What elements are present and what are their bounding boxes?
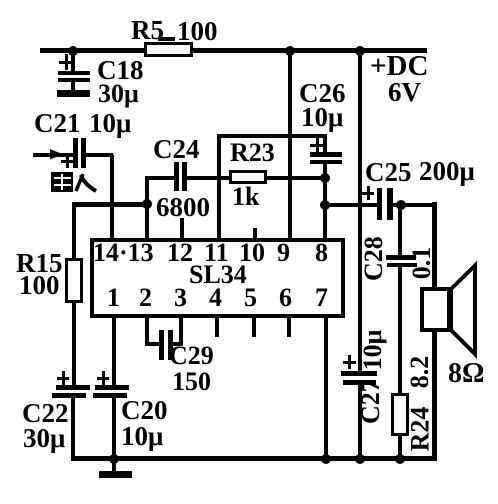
wire pin10 stub bbox=[253, 228, 257, 238]
node pin9 riser junction bbox=[285, 46, 295, 56]
node output junction bbox=[320, 200, 330, 210]
node R24 rail junction bbox=[395, 454, 405, 464]
label 100 (R15 value) bbox=[19, 272, 60, 299]
label C29 bbox=[169, 343, 214, 369]
wire pin3 lead bbox=[179, 318, 183, 346]
label C24 bbox=[153, 136, 200, 163]
label 10u (C27 value, rotated) bbox=[360, 329, 386, 371]
label shu (input chinese char 1) bbox=[51, 172, 73, 192]
wire C22 lower lead bbox=[71, 397, 75, 460]
wire input node horizontal bbox=[72, 202, 149, 207]
wire top rail right segment bbox=[191, 48, 427, 53]
node R23/C26/pin8 junction bbox=[320, 173, 330, 183]
wire pin13 riser bbox=[145, 206, 149, 238]
label pin 1 bbox=[107, 285, 120, 311]
wire R15 riser bbox=[72, 206, 76, 258]
resistor R15 bbox=[65, 258, 83, 303]
label pin 8 bbox=[315, 240, 328, 266]
label 8.2 (R24 value, rotated) bbox=[407, 352, 433, 392]
wire C26 top horizontal (pin11 to C26) bbox=[217, 134, 327, 138]
label 1k (R23 value) bbox=[232, 184, 259, 210]
wire C26 bottom lead bbox=[323, 164, 327, 180]
wire pin6 stub bbox=[287, 318, 291, 337]
label C25 bbox=[365, 159, 412, 186]
label 8ohm bbox=[448, 360, 484, 388]
resistor R23 bbox=[229, 170, 267, 184]
label pins 14-13 bbox=[93, 240, 154, 266]
wire C28 lower lead bbox=[398, 267, 402, 393]
wire pin11 riser bbox=[217, 134, 221, 238]
wire C21 to pin14 riser bbox=[86, 153, 113, 157]
wire C26 top lead bbox=[323, 138, 327, 152]
wire C24 to R23 bbox=[187, 176, 229, 180]
wire pin14 riser bbox=[110, 155, 114, 238]
IC U1 SL34 box bbox=[90, 238, 345, 318]
label SL34 bbox=[189, 262, 247, 288]
capacitor C29 bbox=[159, 330, 164, 360]
wire pin8 riser bbox=[323, 206, 327, 238]
wire C27 lower lead bbox=[358, 385, 362, 460]
wire R23 to node bbox=[267, 176, 327, 180]
label pin 3 bbox=[174, 285, 187, 311]
speaker box bbox=[420, 287, 451, 332]
wire pin5 stub bbox=[252, 318, 256, 337]
label C18 bbox=[97, 57, 144, 84]
C27 plus mark bbox=[348, 355, 351, 369]
C25 plus mark bbox=[367, 186, 370, 200]
wire pin1 lead down bbox=[112, 318, 116, 385]
wire pin12 stub bbox=[180, 218, 184, 238]
label C28 (rotated) bbox=[361, 239, 387, 281]
label 0.1 (C28 value, rotated) bbox=[409, 243, 435, 283]
label C21 bbox=[34, 110, 81, 137]
node pin7 rail junction bbox=[321, 454, 331, 464]
label 10u (C20 value) bbox=[121, 423, 163, 450]
wire pin4 stub bbox=[215, 318, 219, 337]
wire C28 upper lead bbox=[398, 206, 402, 255]
label pin 6 bbox=[279, 285, 292, 311]
wire R15 lower lead bbox=[72, 303, 76, 385]
C21 plus mark bbox=[66, 153, 69, 168]
node C18 tap junction bbox=[68, 46, 78, 56]
capacitor C25 bbox=[377, 188, 382, 220]
node C28 tap junction bbox=[396, 200, 406, 210]
wire bottom ground rail bbox=[71, 456, 437, 461]
capacitor C24 bbox=[174, 162, 179, 191]
label R24 (rotated) bbox=[408, 407, 434, 452]
wire pin7 lead down bbox=[324, 318, 328, 460]
label 10u (C21 value) bbox=[89, 110, 131, 137]
label +DC bbox=[370, 52, 428, 81]
label 200u (C25 value) bbox=[419, 158, 475, 185]
wire pin9 riser bbox=[288, 52, 292, 238]
wire speaker line upper bbox=[432, 202, 437, 289]
wire input lead bbox=[33, 153, 73, 157]
label R15 bbox=[16, 250, 63, 277]
wire Vcc decoupling branch (top rail to C27) bbox=[358, 52, 362, 371]
capacitor C21 bbox=[73, 138, 78, 168]
wire pin2 lead bbox=[145, 318, 149, 346]
label C20 bbox=[121, 397, 168, 424]
label C22 bbox=[22, 400, 69, 427]
wire C24 left lead vertical bbox=[145, 177, 149, 204]
C26 plus mark bbox=[316, 137, 319, 152]
node C27 rail junction bbox=[355, 454, 365, 464]
label R23 bbox=[230, 140, 275, 166]
wire C29 to pin3 bbox=[172, 342, 183, 346]
label 30u (C22 value) bbox=[23, 425, 65, 452]
C20 plus mark bbox=[102, 371, 105, 385]
wire speaker line lower bbox=[432, 330, 437, 460]
label pin 12 bbox=[167, 240, 193, 266]
label C27 (rotated) bbox=[358, 382, 384, 424]
capacitor C22 bbox=[56, 385, 90, 390]
wire top rail left segment bbox=[40, 48, 146, 53]
wire node vertical bbox=[323, 177, 327, 205]
label pin 2 bbox=[139, 285, 152, 311]
wire C20 lower lead bbox=[112, 397, 116, 460]
wire C25 to speaker line bbox=[393, 203, 436, 207]
label 10u (C26 value) bbox=[301, 104, 343, 131]
label pin 5 bbox=[244, 285, 257, 311]
label 150 (C29 value) bbox=[172, 369, 211, 395]
node C20 rail junction bbox=[109, 454, 119, 464]
label pin 7 bbox=[315, 285, 328, 311]
wire output to C25 bbox=[327, 203, 377, 207]
label 6800 (C24 value) bbox=[156, 194, 210, 221]
label pin 4 bbox=[209, 285, 222, 311]
capacitor C26 bbox=[310, 152, 342, 157]
resistor R24 bbox=[391, 393, 409, 436]
label underscore after R5 bbox=[158, 37, 175, 41]
wire R24 lower lead bbox=[398, 436, 402, 460]
label pin 9 bbox=[277, 240, 290, 266]
node C27 branch junction bbox=[355, 46, 365, 56]
label pin 11 bbox=[204, 240, 229, 266]
capacitor C28 bbox=[386, 255, 416, 260]
resistor R5 bbox=[144, 42, 193, 57]
capacitor C20 bbox=[95, 385, 129, 390]
label 6V bbox=[388, 79, 421, 106]
label R5 bbox=[131, 17, 164, 44]
label pin 10 bbox=[239, 240, 265, 266]
C18 plus mark bbox=[65, 54, 68, 70]
label C26 bbox=[299, 80, 346, 107]
node C24/pin13 junction bbox=[142, 199, 152, 209]
capacitor C27 bbox=[341, 371, 377, 376]
wire C24 left lead horizontal bbox=[145, 176, 174, 180]
ground symbol bbox=[112, 459, 116, 472]
label 30u (C18 value) bbox=[98, 81, 139, 107]
C22 plus mark bbox=[62, 371, 65, 385]
label 100 (R5 value) bbox=[177, 18, 218, 45]
capacitor C18 bbox=[71, 52, 75, 71]
